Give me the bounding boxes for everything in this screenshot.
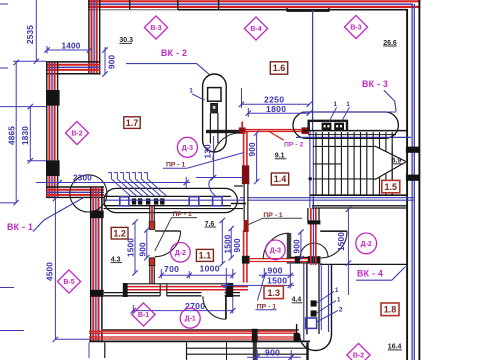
red riser wall dark pier [242, 165, 249, 184]
corridor right wall line [331, 264, 333, 334]
dim 900 wc ext [263, 268, 265, 279]
dim 900 bottom ext left [256, 350, 258, 360]
diamond B-1 [132, 303, 155, 326]
dim 900 top line [104, 47, 106, 75]
step wall horizontal (y61-74): black outer [46, 61, 101, 63]
svg-text:ПР - 1: ПР - 1 [166, 161, 185, 168]
manifold bracket [309, 121, 347, 131]
dim 1800 ext left [247, 108, 249, 117]
svg-text:1.1: 1.1 [199, 251, 212, 261]
sw corner wall: red pipe [46, 189, 104, 191]
boiler label 1 leader [192, 94, 205, 100]
area text 26.6 [383, 40, 397, 47]
radiator wall band top face [104, 195, 231, 197]
entry wall white break [160, 291, 167, 297]
boiler pipes vertical [209, 113, 211, 143]
area text 6.9 [392, 157, 404, 164]
valve square on band [132, 198, 136, 204]
riser leader 3 [123, 179, 143, 196]
dim 2300 line [36, 182, 190, 184]
bottom wall: red pipe 3 [89, 336, 297, 338]
area text 30.3 [119, 37, 133, 44]
WC wall black cap [295, 256, 300, 263]
dim 700-1000 line [160, 274, 233, 276]
svg-text:ВК - 3: ВК - 3 [362, 79, 388, 89]
VK-4 leader [356, 267, 405, 281]
porch thick divider [253, 343, 257, 360]
corridor riser blue line [312, 199, 314, 265]
riser leader 6 [141, 179, 161, 196]
riser tick 7 [144, 173, 148, 179]
riser tick 2 [114, 173, 118, 179]
dim 900 hall line [256, 133, 258, 182]
svg-text:В-4: В-4 [250, 26, 261, 33]
svg-text:900: 900 [248, 142, 257, 157]
edge tick y207 [0, 202, 16, 204]
entry wall black mid face [104, 292, 201, 294]
door jamb red block lower [149, 258, 155, 266]
corridor inner wall line [318, 263, 320, 334]
band-to-wall connector line [231, 203, 246, 205]
svg-text:4500: 4500 [46, 262, 55, 281]
corridor left wall line [306, 263, 308, 335]
left wall middle: red pipe 2 [54, 63, 56, 198]
edge tick top left [0, 3, 8, 5]
dim 900 mid line [230, 228, 232, 258]
stair hall wall line y134 [308, 134, 396, 136]
svg-text:900: 900 [138, 242, 147, 257]
svg-text:В-5: В-5 [63, 279, 74, 286]
circle D-3 wc [266, 240, 286, 260]
svg-text:2300: 2300 [73, 174, 92, 183]
boiler stadium VK-2 [203, 74, 227, 152]
right wall pier block [406, 175, 420, 181]
porch step line 1 [187, 347, 309, 349]
dim 1400 line [47, 49, 90, 51]
dim 1800 line [248, 112, 309, 114]
outer wall top: red pipe line [88, 0, 420, 2]
svg-text:1500: 1500 [267, 276, 287, 286]
valve square on band [160, 198, 164, 204]
bottom wall: red pipe 2 [89, 332, 297, 334]
PR-1 bottom leader [257, 273, 265, 301]
dim 900 wc horizontal line [259, 274, 294, 276]
dim 2250 line [242, 103, 310, 105]
right wall: black outer face [418, 0, 420, 360]
svg-text:ПР - 2: ПР - 2 [284, 142, 303, 149]
fixture leader 1 [317, 291, 334, 303]
sw corner wall: black inner [46, 196, 104, 198]
right wall: blue line 2 [413, 4, 415, 360]
porch side line [186, 343, 188, 360]
riser tick 3 [120, 173, 124, 179]
porch left extension black [104, 343, 106, 359]
riser leader 2 [117, 179, 137, 196]
svg-text:1.8: 1.8 [384, 305, 397, 315]
entry wall y283-296 black top face [123, 283, 233, 285]
svg-text:1.7: 1.7 [126, 118, 139, 128]
bottom wall: red pipe 1 [89, 330, 297, 332]
dim 900 bottom ext right [290, 350, 292, 360]
riser curve [209, 178, 217, 198]
PR-2 leader red [269, 132, 283, 141]
svg-text:900: 900 [233, 238, 242, 253]
corridor riser black cap [308, 220, 321, 224]
riser leader 7 [147, 179, 167, 196]
riser tick 1 [108, 173, 112, 179]
left wall pier block [46, 90, 60, 106]
blue vertical pipe upper x311 [312, 10, 314, 131]
entry wall red pipes [123, 286, 248, 288]
dim 2300 right ext [185, 177, 187, 188]
door D-1 entry: leaf [225, 296, 227, 319]
circle D-2 left [171, 243, 191, 263]
diamond B-3 top left [144, 16, 167, 39]
stair break diagonal 2 [375, 162, 406, 180]
red riser wall bottom cap [242, 256, 250, 264]
stair break diagonal 1 [375, 146, 406, 162]
left wall middle (x46-59): black outer [46, 62, 48, 198]
door D-2 right: leaf [320, 230, 347, 232]
left wall lower: blue line [95, 187, 97, 342]
door D-1 entry: swing arc [203, 296, 226, 319]
left wall upper: black inner [99, 0, 101, 75]
stair manifold stadium [293, 112, 398, 138]
red riser wall black mid double lines [243, 184, 245, 221]
svg-text:2535: 2535 [26, 25, 35, 44]
riser leader 1 [111, 179, 131, 196]
wall junction tick [218, 0, 220, 10]
svg-text:900: 900 [293, 239, 302, 254]
svg-text:ВК - 2: ВК - 2 [161, 48, 187, 58]
valve square on band [138, 198, 142, 204]
room box 1.8 [381, 303, 399, 316]
blue socket box on band [189, 197, 199, 206]
corridor right blue pipe [328, 264, 330, 332]
riser leader 4 [129, 179, 149, 196]
left wall middle: black inner [57, 62, 59, 198]
diamond B-2 left [65, 121, 88, 144]
svg-text:В-2: В-2 [353, 353, 364, 360]
svg-text:900: 900 [268, 266, 283, 276]
riser tick 4 [126, 173, 129, 179]
room box 1.4 [271, 173, 288, 185]
svg-text:1.5: 1.5 [385, 182, 398, 192]
svg-text:4865: 4865 [8, 126, 17, 145]
entry wall right jamb [226, 283, 234, 297]
manifold valve box 2 [334, 123, 344, 130]
svg-text:1000: 1000 [200, 264, 220, 274]
dim 130 vertical line [213, 136, 215, 178]
svg-text:В-3: В-3 [350, 25, 361, 32]
right wall: blue line 1 [411, 4, 413, 360]
dim 4500 line [54, 198, 56, 339]
corridor fixture square 1 [311, 300, 317, 306]
dim 1830 ext bottom [27, 160, 46, 162]
svg-text:1500: 1500 [337, 232, 346, 251]
blue pipe through band [104, 199, 414, 201]
PR-1 room11 underline [172, 217, 198, 219]
svg-text:700: 700 [164, 264, 179, 274]
sw corner wall horizontal (y186-198): black outer [46, 186, 104, 188]
entry wall left jamb [123, 283, 128, 297]
corridor fixture blue box [306, 318, 317, 328]
area text 4.3 [111, 256, 122, 263]
dim mid ext [188, 271, 190, 279]
svg-text:Д-3: Д-3 [270, 247, 281, 254]
dim 1500 wc ext left [225, 268, 227, 289]
svg-text:ВК - 4: ВК - 4 [357, 269, 383, 279]
room box 1.1 [196, 249, 213, 261]
left wall lower (x90-103): black outer [90, 187, 92, 342]
wall junction tick [177, 0, 179, 10]
shelf / counter thick line [206, 130, 240, 133]
right wall: black inner face [406, 10, 408, 360]
dim 2535 line [35, 0, 37, 62]
dim 130 slash [211, 175, 216, 180]
partition wall x150-154 lower segment black faces [149, 258, 151, 285]
PR-2 red pipe wall y129-131 [240, 129, 307, 131]
step wall: black inner [46, 73, 101, 75]
left wall pier block [46, 160, 60, 176]
outer wall top: blue line [88, 3, 413, 5]
blue pipe double upper [240, 197, 414, 199]
window lintel bracket on top wall [287, 8, 329, 11]
left wall lower pier block at branch [90, 290, 104, 297]
room box 1.7 [124, 117, 140, 129]
WC wall y257-263 black faces [287, 256, 310, 258]
right wall pier block [406, 147, 420, 153]
blue pipe along manifold top [302, 111, 396, 113]
fixture leader 2 [317, 301, 336, 313]
svg-text:Д-1: Д-1 [185, 316, 196, 323]
door D-3 wc: leaf bar [287, 233, 291, 259]
radiator band stadium outline [104, 188, 237, 212]
bottom wall jamb block [252, 329, 258, 343]
sw corner wall: blue line [46, 191, 104, 193]
room box 1.5 [382, 180, 400, 192]
svg-text:ВК - 1: ВК - 1 [7, 222, 33, 232]
left wall lower: red pipe 2 [98, 187, 100, 342]
PR-2 wall end block left [239, 127, 246, 133]
corridor left blue pipe [303, 263, 305, 341]
stair blue pipe line [296, 136, 411, 138]
dim 130 base line [196, 177, 244, 179]
dim slashes [34, 59, 39, 64]
step wall: red pipe [46, 64, 101, 66]
stair treads [316, 132, 392, 195]
corridor inner blue pipe [320, 263, 322, 330]
svg-text:130: 130 [204, 144, 213, 159]
dim 2700 line [133, 310, 233, 312]
sw corner wall: red pipe 2 [46, 194, 104, 196]
door hall top: swing arc [213, 133, 240, 160]
dim 4865 line [15, 62, 17, 203]
partition wall x150-154 upper segment black faces [149, 206, 151, 230]
partition wall red pipe upper [151, 206, 153, 230]
stair bottom rail [310, 194, 406, 196]
room 1.8 top wall line y264 [320, 263, 407, 265]
door D-2 left: swing arc [155, 231, 181, 257]
red riser dark jamb block [244, 220, 249, 232]
corridor red riser wall pipes [310, 208, 312, 265]
WC wall red pipes [249, 258, 320, 260]
room box 1.2 [111, 227, 128, 239]
svg-text:1800: 1800 [266, 104, 286, 114]
corridor riser black face left [307, 208, 309, 223]
radiator wall band bottom face [104, 205, 231, 207]
svg-text:Д-2: Д-2 [175, 250, 186, 257]
left wall lower: black inner [101, 187, 103, 342]
opening arch semicircle [300, 243, 328, 257]
PR-2 wall end block right [302, 127, 309, 134]
corridor fixture square 2 [311, 310, 317, 316]
partition wall red pipe lower [151, 258, 153, 285]
valve square on band [146, 198, 150, 204]
PR-1 hall leader [163, 153, 244, 169]
stair flight rail 3 [313, 178, 376, 180]
riser tick 5 [132, 173, 136, 179]
svg-text:2250: 2250 [264, 95, 284, 105]
area text 9.1 [275, 152, 287, 159]
diamond B-2 bottom [347, 343, 370, 360]
bottom wall end cap [294, 333, 300, 342]
column dot [308, 177, 312, 181]
diamond B-4 [244, 17, 267, 40]
left wall middle: red pipe [48, 63, 50, 198]
stair break white wedge [375, 146, 406, 180]
PR-1 bottom underline [255, 309, 276, 311]
circle D-2 right [356, 233, 377, 254]
porch step line 2 [187, 353, 309, 355]
left wall upper (x88-100): black outer [88, 0, 90, 75]
porch left extension blue [88, 343, 90, 359]
dim 1500 wc horizontal line [221, 284, 294, 286]
room box 1.6 [270, 62, 287, 74]
WC wall black cap 2 [308, 256, 321, 263]
wall tick y186 [234, 185, 243, 187]
left wall upper: red pipe 2 [96, 0, 98, 75]
stair flight rail 2 [313, 163, 342, 165]
svg-text:900: 900 [265, 348, 280, 358]
svg-text:Д-3: Д-3 [182, 145, 193, 152]
valve square on band [154, 198, 158, 204]
svg-text:Д-2: Д-2 [361, 241, 372, 248]
entry wall black bottom face [104, 295, 201, 297]
dim 1400 ext left [46, 46, 48, 54]
dim 1500 hall line [347, 209, 349, 264]
circle D-1 [180, 308, 200, 328]
outer wall top: black inner face [178, 9, 408, 11]
diamond B-3 top right [344, 15, 367, 38]
PR-1 wc underline [263, 217, 302, 219]
edge tick y287 [0, 287, 14, 289]
left wall upper: red pipe [91, 0, 93, 75]
red riser wall x242-248: red pipes upper [243, 131, 245, 168]
room box 1.3 [264, 286, 283, 299]
left wall lower: red pipe [92, 187, 94, 342]
VK-2 leader [126, 64, 209, 75]
dim 900 left line [146, 230, 148, 259]
step wall: red pipe 2 [46, 69, 101, 71]
corridor riser black face right [318, 208, 320, 223]
corridor rounded bottom cap [300, 334, 332, 351]
red stub above PR-2 wall [241, 122, 243, 129]
svg-text:1.4: 1.4 [274, 174, 287, 184]
svg-text:1.2: 1.2 [113, 228, 126, 238]
outer wall top: gray inner face left part [88, 9, 178, 11]
band wall inner face line [104, 208, 150, 210]
door D-2 right: swing arc [320, 231, 347, 258]
svg-text:900: 900 [108, 54, 117, 69]
area text 16.4 [388, 344, 402, 351]
bottom wall: black bottom face [89, 340, 310, 342]
porch right side [306, 343, 308, 360]
svg-text:1.3: 1.3 [267, 288, 280, 298]
dim 1000 ext right [232, 269, 234, 279]
left wall lower pier block [90, 211, 104, 219]
diamond B-5 [57, 270, 80, 293]
valve leader 1 [329, 107, 337, 122]
svg-text:1830: 1830 [21, 126, 30, 145]
edge tick y330 [0, 330, 24, 332]
dim 2700 ext left [132, 305, 134, 314]
wall stub above bottom wall end [296, 324, 298, 333]
left wall middle: blue line [51, 63, 53, 198]
fixture leader 3 [317, 310, 338, 322]
bottom wall: red pipe 4 [89, 338, 297, 340]
svg-text:1500: 1500 [127, 238, 136, 257]
porch divider [226, 343, 228, 360]
dim 900 wc vertical line [300, 232, 302, 260]
PR-1 wc leader [247, 218, 264, 225]
outer wall top: red pipe line 2 [88, 6, 420, 8]
door D-2 left: leaf [155, 230, 181, 232]
red riser wall red pipes lower [243, 230, 245, 283]
riser leader 5 [135, 179, 155, 196]
dim 1830 line [29, 107, 31, 161]
dim 2535 ext [13, 60, 46, 62]
riser tick 6 [138, 173, 142, 179]
blue socket box on band [120, 197, 129, 206]
stair right boundary line [391, 146, 393, 195]
blue vertical pipe pair mid [309, 131, 311, 208]
blue socket box on band [213, 197, 223, 206]
circle D-3 hall [177, 137, 197, 157]
dim 1500 mid line [221, 220, 223, 264]
svg-text:В-2: В-2 [71, 131, 82, 138]
svg-text:1.6: 1.6 [273, 63, 286, 73]
area text 7.6 [205, 221, 217, 228]
boiler small dark box [211, 103, 218, 113]
door jamb red block upper [149, 222, 155, 230]
dim 700 ext left [160, 269, 162, 279]
hall top wall y205-208 [312, 205, 406, 207]
left wall upper: blue line [93, 0, 95, 75]
door D-3 wc: swing arc [263, 233, 289, 259]
stair flight rail 1 [313, 145, 376, 147]
svg-text:1400: 1400 [62, 42, 81, 51]
bottom wall: black top face [103, 329, 299, 331]
dim 2700 ext right [232, 297, 234, 314]
VK-1 leader [33, 197, 84, 231]
detail callout circle at wall corner [70, 175, 107, 212]
dim 1830 ext top [0, 106, 46, 108]
svg-text:1500: 1500 [224, 234, 233, 253]
dim 4500 ext bottom [55, 338, 90, 340]
dim wc ext right [289, 262, 291, 289]
stair hall wall line y130 [302, 130, 406, 132]
